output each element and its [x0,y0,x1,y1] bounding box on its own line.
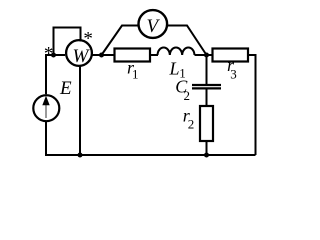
label L1 [169,58,186,80]
label C2 [175,76,190,103]
resistor r3 [213,49,249,62]
node junction on left wire [51,53,56,58]
resistor r2 [200,106,213,141]
svg-text:L: L [169,58,180,78]
svg-text:2: 2 [184,88,191,103]
inductor L1 [158,48,195,55]
node bottom junction wattmeter branch [78,153,83,158]
label r3 [227,55,237,81]
capacitor C2 [192,85,221,88]
node B junction before r3 [204,53,209,58]
polarity asterisk right [83,28,93,49]
node bottom junction r2 branch [204,153,209,158]
svg-text:E: E [59,78,72,99]
label r2 [183,106,195,132]
node A junction after wattmeter [99,53,104,58]
wire top-left segment from E branch corner to wattmeter [46,54,65,56]
svg-text:1: 1 [132,67,139,82]
polarity asterisk left [44,43,54,64]
label r1 [127,58,139,82]
svg-text:3: 3 [230,66,237,81]
wire voltmeter right lead [166,26,206,56]
wire voltmeter left lead [102,26,139,56]
resistor r1 [115,49,151,62]
wattmeter U W [66,40,92,67]
wire wattmeter bottom branch [79,66,81,156]
svg-text:*: * [83,28,93,49]
wire L1 to node B [195,54,213,56]
wire node B down to capacitor [206,55,208,84]
wire bottom horizontal [46,154,256,156]
wire r3 to right edge [248,54,256,56]
wire r2 to bottom [206,141,208,155]
wattmeter voltage-coil loop wire [54,28,81,56]
wire from wattmeter to r1 [92,54,115,56]
wire r1 to L1 [150,54,158,56]
source E [33,95,59,121]
svg-text:2: 2 [188,117,195,132]
label E [59,78,72,99]
wire E branch left vertical [45,54,47,156]
voltmeter U V [139,10,168,38]
wire capacitor to r2 [206,90,208,107]
wire right vertical branch [255,54,257,155]
